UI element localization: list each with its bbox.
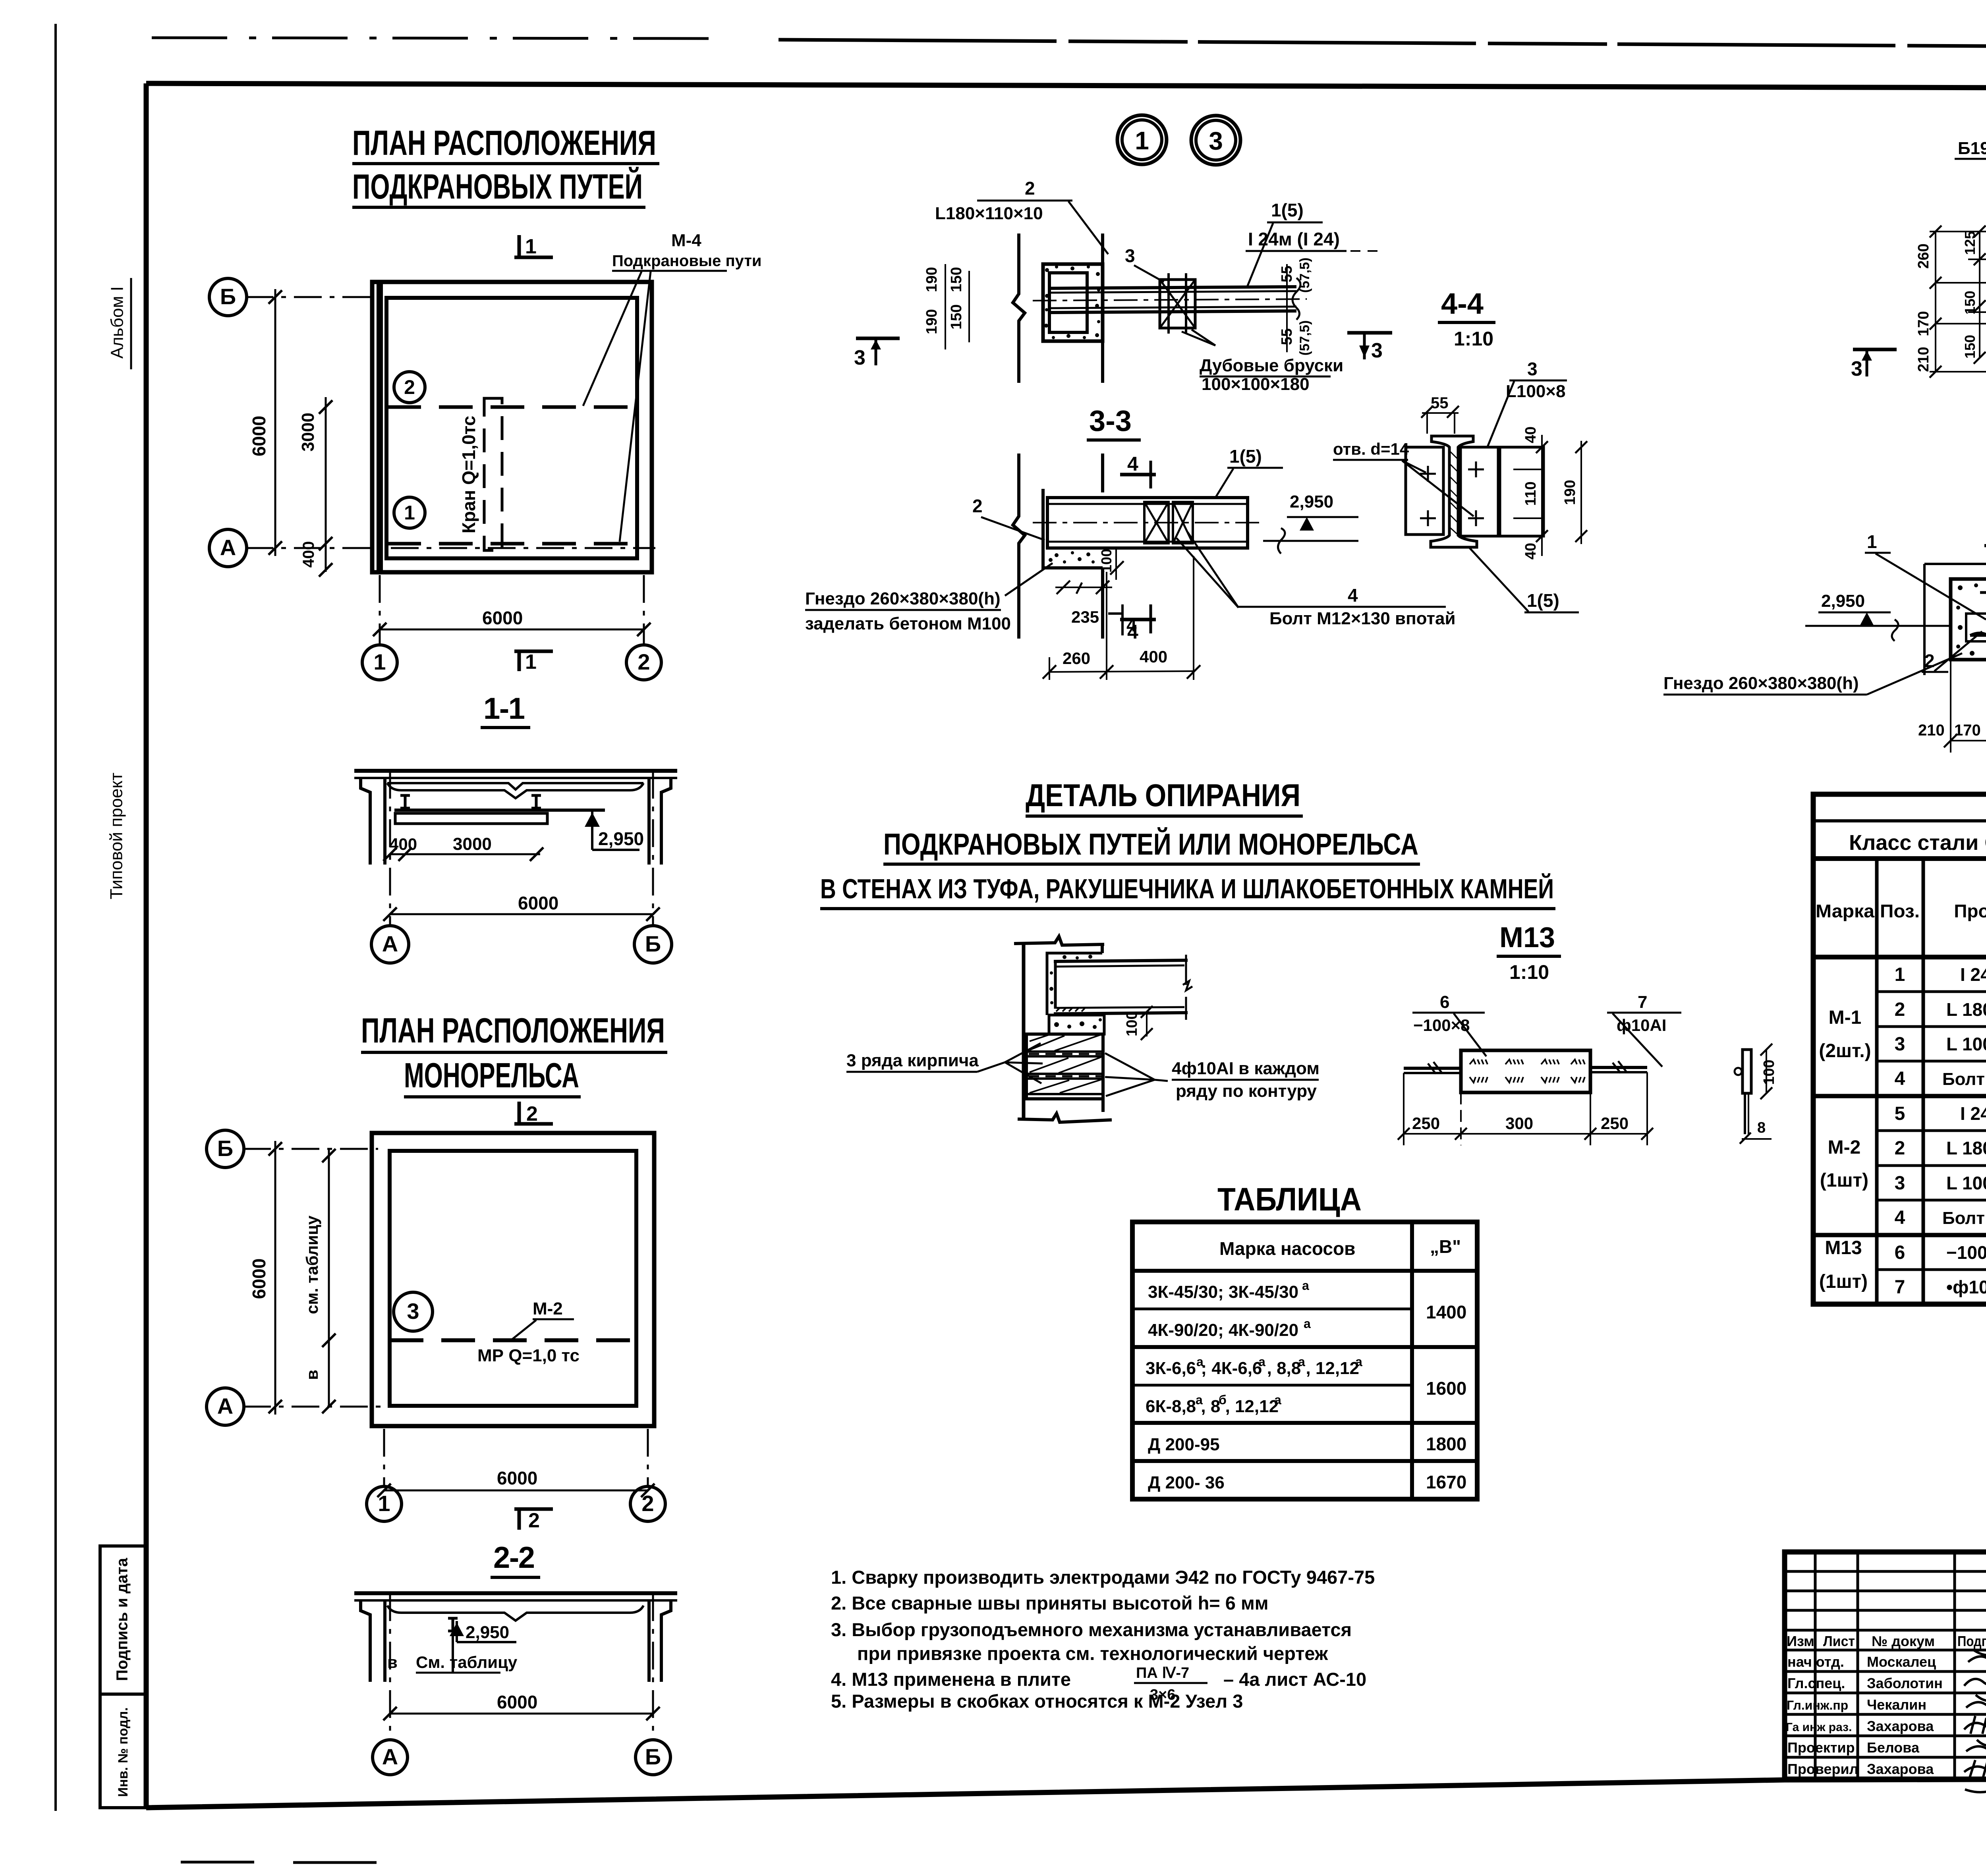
svg-text:400: 400 [389,835,417,853]
svg-text:А: А [217,1393,233,1419]
dims 250 300 250 [1404,1133,1647,1135]
title block [1785,1552,1986,1792]
section flag 3 left [856,337,900,340]
svg-text:(1шт): (1шт) [1819,1271,1868,1292]
svg-text:3К-45/30; 3К-45/30: 3К-45/30; 3К-45/30 [1148,1282,1298,1302]
grid circle A [209,529,247,567]
svg-text:Б19: Б19 [1958,139,1986,158]
wall right edge top stub [1101,944,1104,953]
svg-text:4: 4 [1348,585,1358,606]
wall below bricks [1101,1099,1105,1112]
svg-text:Проектир: Проектир [1787,1739,1855,1756]
svg-text:М-2: М-2 [533,1299,563,1318]
svg-text:6000: 6000 [497,1692,537,1712]
circles A B [373,1740,408,1775]
svg-text:В СТЕНАХ ИЗ ТУФА, РАКУШЕЧНИКА: В СТЕНАХ ИЗ ТУФА, РАКУШЕЧНИКА И ШЛАКОБЕТ… [820,873,1554,904]
svg-text:См. таблицу: См. таблицу [416,1653,518,1671]
svg-text:40: 40 [1522,427,1539,443]
svg-text:2,950: 2,950 [466,1623,509,1642]
detail opiraniya drawing [846,936,1319,1122]
svg-text:Захарова: Захарова [1867,1718,1934,1734]
dim 6000 bottom [384,1490,648,1492]
brick block [1026,1034,1103,1099]
section mark 1 bottom [514,650,553,653]
svg-text:М-2: М-2 [1828,1137,1861,1158]
svg-text:2. Все сварные швы приняты: 2. Все сварные швы приняты высотой h= 6 … [831,1592,1269,1614]
bolt block (oak bars) [1160,280,1195,328]
svg-text:Гл.инж.пр: Гл.инж.пр [1787,1698,1848,1712]
svg-text:1:10: 1:10 [1509,961,1549,983]
elevation 2950 [456,1621,458,1642]
svg-text:2: 2 [1025,178,1035,199]
bolt centers [1420,461,1484,526]
svg-text:55: 55 [1431,394,1449,412]
marka col [1819,1007,1871,1292]
beam side view [1049,287,1296,288]
section mark 2 bottom [514,1507,553,1511]
svg-text:1:10: 1:10 [1454,328,1493,350]
svg-text:Белова: Белова [1867,1739,1920,1756]
svg-text:отв. d=14: отв. d=14 [1333,440,1409,458]
svg-text:б: б [1219,1393,1227,1407]
flag 4 small [1121,604,1124,635]
profile col [1942,964,1986,1297]
plan 2 (monorail) [207,1102,665,1532]
svg-text:3000: 3000 [453,834,492,854]
dims 210 170 260 430 [1951,740,1986,741]
page top edge line [152,38,711,39]
svg-text:6000: 6000 [249,1258,269,1299]
elevation 2950 [591,810,593,850]
left dims [945,264,946,349]
svg-text:М13: М13 [1825,1237,1862,1258]
title: plan raspolozheniya podkranovykh putey [352,123,659,207]
svg-text:L 180×110×10: L 180×110×10 [1946,999,1986,1020]
svg-text:Москалец: Москалец [1867,1654,1936,1670]
svg-text:(57,5): (57,5) [1297,320,1312,356]
svg-text:Д 200- 36: Д 200- 36 [1148,1473,1225,1492]
svg-text:а: а [1274,1393,1281,1407]
svg-text:Захарова: Захарова [1867,1761,1934,1777]
svg-text:L100×8: L100×8 [1506,382,1565,401]
row lines [1877,992,1986,1270]
section 5-5 [1663,510,1986,790]
svg-text:150: 150 [1962,291,1978,315]
svg-text:Гл.спец.: Гл.спец. [1787,1675,1845,1691]
svg-text:1(5): 1(5) [1271,200,1304,220]
svg-text:а: а [1196,1393,1203,1407]
section flag 3 [1347,331,1392,335]
svg-text:110: 110 [1522,481,1539,506]
dims 400 3000 [390,853,540,855]
svg-text:Подпись и дата: Подпись и дата [114,1558,131,1681]
svg-text:250: 250 [1601,1114,1629,1133]
svg-text:55: 55 [1279,328,1295,345]
svg-text:Б: Б [645,1744,661,1769]
grid circles [207,1130,244,1168]
svg-text:150: 150 [948,304,965,329]
svg-text:L180×110×10: L180×110×10 [935,204,1043,223]
dim sm.tablitsu / v [328,1149,330,1407]
svg-text:100: 100 [1761,1060,1777,1085]
svg-text:2: 2 [528,1509,540,1532]
beam [1054,960,1188,961]
svg-text:а: а [1298,1355,1305,1369]
detail 3-3 upper (node section) [854,178,1378,440]
axes verticals [389,1593,391,1736]
right plate [1461,447,1498,536]
svg-text:2,950: 2,950 [598,828,644,849]
svg-text:ПЛАН РАСПОЛОЖЕНИЯ: ПЛАН РАСПОЛОЖЕНИЯ [352,123,656,162]
monorail beams [400,795,410,808]
100 dim [1146,1012,1148,1036]
left dims [1935,232,1936,372]
bar with plate [1404,1067,1462,1070]
section flag 4 top [1120,473,1156,477]
svg-text:3К-6,6 ; 4К-6,6 , 8,8 , 12,12: 3К-6,6 ; 4К-6,6 , 8,8 , 12,12 [1146,1359,1359,1378]
svg-text:300: 300 [1505,1114,1533,1133]
svg-text:2: 2 [972,496,983,516]
svg-text:L 100×8: L 100×8 [1946,1173,1986,1193]
walls [372,282,652,572]
svg-text:4: 4 [1127,453,1138,475]
svg-text:2: 2 [1895,1138,1905,1159]
outline box with breaks [1924,563,1986,565]
svg-text:Чекалин: Чекалин [1867,1697,1926,1713]
tablitsa [1132,1181,1477,1499]
svg-text:I 24м (I 24): I 24м (I 24) [1248,229,1340,249]
svg-text:190: 190 [923,267,940,292]
svg-text:2: 2 [638,649,650,674]
svg-text:Гнездо 260×380×380(h): Гнездо 260×380×380(h) [805,589,1001,608]
niche concrete [1043,264,1103,341]
node 1-3 header circles [1117,115,1240,165]
dim 235 [1055,587,1112,588]
svg-text:ПОДКРАНОВЫХ ПУТЕЙ: ПОДКРАНОВЫХ ПУТЕЙ [352,167,643,206]
dim 6000 bottom [380,629,644,631]
niche concrete in plan [1043,489,1103,568]
svg-text:Гнездо 260×380×380(h): Гнездо 260×380×380(h) [1663,674,1859,693]
svg-text:Болт М12×130: Болт М12×130 [1942,1069,1986,1089]
svg-text:150: 150 [948,267,965,292]
left plate [1406,447,1443,535]
svg-text:400: 400 [300,541,317,568]
svg-text:в: в [387,1653,398,1671]
svg-text:1-1: 1-1 [483,692,525,726]
svg-text:260: 260 [1063,649,1090,668]
svg-text:55: 55 [1279,266,1295,282]
crane rails dashed [387,407,637,544]
svg-text:2: 2 [404,376,415,398]
beam plan [1047,498,1248,548]
svg-text:4-4: 4-4 [1441,287,1484,320]
notes [831,1567,1375,1712]
detail opiraniya titles [820,778,1555,909]
rail axis circles [394,372,425,403]
signatures squiggles [1964,1650,1986,1792]
svg-text:7: 7 [1638,992,1647,1012]
svg-text:Инв. № подл.: Инв. № подл. [116,1707,131,1797]
svg-text:Профиль: Профиль [1954,901,1986,921]
svg-text:Б: Б [645,931,661,956]
svg-text:МОНОРЕЛЬСА: МОНОРЕЛЬСА [404,1056,579,1095]
circles A B [371,926,409,963]
wall verticals [1013,454,1025,639]
svg-text:Подкрановые пути: Подкрановые пути [612,252,762,270]
monorail hanger [448,1618,458,1631]
svg-text:3: 3 [1895,1034,1905,1055]
svg-text:(1шт): (1шт) [1820,1170,1868,1191]
svg-text:6: 6 [1440,992,1449,1012]
left column [361,778,370,865]
svg-text:(2шт.): (2шт.) [1819,1040,1871,1062]
svg-text:ДЕТАЛЬ ОПИРАНИЯ: ДЕТАЛЬ ОПИРАНИЯ [1026,778,1300,813]
svg-text:210: 210 [1918,722,1945,739]
svg-text:1: 1 [1135,126,1149,155]
section 2-2 [354,1541,677,1775]
M13 detail [1398,922,1777,1145]
svg-text:2: 2 [526,1102,538,1125]
dim 6000 [390,913,653,915]
svg-text:(57,5): (57,5) [1297,258,1312,293]
svg-text:ПА Ⅳ-7: ПА Ⅳ-7 [1136,1665,1189,1681]
right dims 55 (57,5) [1286,264,1288,352]
svg-text:I 24: I 24 [1960,1103,1986,1124]
svg-text:6000: 6000 [482,608,523,628]
svg-text:Га инж раз.: Га инж раз. [1786,1721,1852,1734]
svg-text:3: 3 [1125,245,1135,266]
svg-text:Подпись: Подпись [1957,1633,1986,1649]
svg-text:4: 4 [1895,1068,1905,1089]
svg-text:3: 3 [1371,339,1383,362]
svg-text:а: а [1196,1355,1204,1369]
svg-text:3: 3 [1209,127,1223,155]
svg-text:4К-90/20; 4К-90/20: 4К-90/20; 4К-90/20 [1148,1320,1298,1340]
left margin labels [100,278,145,1808]
left column [361,1600,370,1682]
svg-text:Поз.: Поз. [1880,901,1920,921]
svg-text:см. таблицу: см. таблицу [303,1215,321,1314]
section 4-4 [1333,287,1587,612]
svg-text:Б: Б [220,284,236,309]
monorail dashed line [390,1338,636,1342]
svg-text:ПЛАН РАСПОЛОЖЕНИЯ: ПЛАН РАСПОЛОЖЕНИЯ [361,1011,665,1050]
axis lines [243,1149,648,1485]
svg-text:•ф10АI: •ф10АI [1946,1277,1986,1297]
svg-text:Заболотин: Заболотин [1867,1675,1943,1691]
dim 3000/400 vertical [325,397,327,572]
svg-text:Лист: Лист [1823,1633,1855,1649]
svg-text:1: 1 [373,649,386,674]
axis lines [245,297,655,644]
I beam profile inside [1970,593,1986,637]
concrete under beam [1049,1015,1104,1034]
wall top edge with break [1014,936,1104,945]
svg-text:190: 190 [923,309,940,334]
svg-text:8: 8 [1757,1119,1766,1136]
svg-text:3: 3 [407,1299,419,1324]
flag 3 left [1853,348,1897,351]
svg-text:Марка: Марка [1816,901,1874,921]
svg-text:Альбом I: Альбом I [108,286,127,359]
svg-text:40: 40 [1522,543,1539,560]
svg-text:Проверил: Проверил [1787,1761,1858,1777]
svg-text:а: а [1302,1278,1309,1293]
svg-text:заделать бетоном М100: заделать бетоном М100 [805,614,1011,633]
roof slab [354,769,677,773]
svg-text:I 24м: I 24м [1960,964,1986,985]
svg-text:Изм: Изм [1787,1633,1814,1649]
svg-text:А: А [382,931,398,956]
svg-text:6: 6 [1895,1242,1905,1263]
welding marks [1470,1060,1585,1083]
svg-text:7: 7 [1895,1277,1905,1298]
svg-text:6К-8,8 , 8 , 12,12: 6К-8,8 , 8 , 12,12 [1146,1397,1279,1416]
svg-text:1600: 1600 [1426,1378,1466,1399]
dims right [1541,435,1543,556]
svg-text:3. Выбор грузоподъемного ме: 3. Выбор грузоподъемного механизма устан… [831,1619,1352,1640]
svg-text:2: 2 [1895,999,1905,1020]
svg-text:2-2: 2-2 [493,1541,535,1575]
svg-text:а: а [1304,1316,1311,1331]
svg-text:ПОДКРАНОВЫХ ПУТЕЙ ИЛИ МОНОРЕЛЬ: ПОДКРАНОВЫХ ПУТЕЙ ИЛИ МОНОРЕЛЬСА [883,827,1418,861]
circle 3 [394,1292,433,1331]
svg-text:3000: 3000 [298,413,318,452]
svg-text:4: 4 [1895,1207,1905,1228]
svg-text:6000: 6000 [249,416,269,456]
svg-text:А: А [382,1744,398,1769]
svg-text:ряду по контуру: ряду по контуру [1176,1081,1317,1101]
svg-text:260: 260 [1915,243,1932,268]
svg-text:L 180×110×10: L 180×110×10 [1946,1138,1986,1158]
svg-text:нач отд.: нач отд. [1787,1654,1844,1670]
svg-text:Болт М12×130: Болт М12×130 [1942,1208,1986,1228]
I beam section [1431,436,1477,547]
svg-text:−100×8: −100×8 [1946,1242,1986,1263]
svg-text:3: 3 [854,346,865,369]
svg-text:400: 400 [1140,647,1167,666]
crane bridge dashed rect [484,398,502,550]
svg-text:в: в [303,1370,321,1380]
right column [661,778,671,865]
svg-text:– 4а лист АС-10: – 4а лист АС-10 [1223,1669,1366,1690]
svg-text:при привязке проекта см.: при привязке проекта см. технологический… [857,1643,1328,1664]
svg-text:170: 170 [1954,722,1981,739]
axes verticals [389,771,391,926]
grid circle 1 bottom [362,645,397,680]
svg-text:210: 210 [1915,347,1932,372]
svg-text:250: 250 [1412,1114,1440,1133]
node 2 detail (top right) [1851,113,1986,557]
svg-text:4ф10АI в каждом: 4ф10АI в каждом [1172,1059,1319,1078]
end view far right [1743,1050,1751,1093]
section mark 1 top [514,256,553,259]
right column [661,1600,671,1682]
svg-text:1800: 1800 [1426,1434,1466,1454]
svg-text:6000: 6000 [497,1468,537,1488]
svg-text:ТАБЛИЦА: ТАБЛИЦА [1217,1181,1362,1218]
svg-text:190: 190 [1562,480,1578,505]
roof slab [354,1591,677,1595]
title: plan monorelsa [361,1011,667,1097]
svg-text:3: 3 [1527,359,1538,379]
svg-text:150: 150 [1962,335,1978,359]
svg-text:1. Сварку производить элект: 1. Сварку производить электродами Э42 по… [831,1567,1375,1588]
svg-text:3: 3 [1851,357,1862,380]
detail 3-3 lower (plan) [805,446,1456,680]
svg-text:1: 1 [525,235,537,258]
gnezdo concrete C-shape [1047,953,1102,1015]
section 1-1 [354,692,677,963]
100 dim [1115,548,1117,580]
svg-text:5: 5 [1895,1103,1905,1124]
svg-text:125: 125 [1962,231,1978,255]
dim 6000 vertical [274,289,276,556]
svg-text:235: 235 [1071,608,1099,626]
svg-text:3-3: 3-3 [1089,404,1132,437]
svg-text:Марка насосов: Марка насосов [1219,1238,1355,1259]
svg-text:№ докум: № докум [1872,1633,1935,1649]
page bottom edge dashes [181,1861,254,1864]
svg-text:1: 1 [525,650,537,674]
dim 6000 vertical [274,1141,276,1415]
svg-text:4: 4 [1126,615,1137,635]
svg-text:Кран Q=1,0тс: Кран Q=1,0тс [458,416,479,533]
svg-text:4. М13 применена в плите: 4. М13 применена в плите [831,1669,1071,1690]
svg-text:1670: 1670 [1426,1472,1466,1492]
svg-text:Б: Б [217,1136,233,1161]
concrete block [1951,579,1986,660]
svg-text:2,950: 2,950 [1290,492,1333,511]
svg-text:МР Q=1,0 тс: МР Q=1,0 тс [477,1346,580,1365]
svg-text:2,950: 2,950 [1821,591,1865,611]
grid circle 2 bottom [626,645,661,680]
signature table [1785,1552,1986,1779]
svg-text:3: 3 [1895,1173,1905,1194]
svg-text:L 100×8: L 100×8 [1946,1034,1986,1054]
svg-text:М-4: М-4 [671,231,701,250]
section mark 2 top [514,1122,553,1126]
svg-text:1: 1 [1895,964,1905,985]
svg-text:Класс стали С: Класс стали С [1849,831,1986,855]
svg-text:100: 100 [1124,1011,1140,1036]
svg-text:Типовой проект: Типовой проект [107,772,126,899]
svg-text:100: 100 [1098,549,1115,573]
svg-text:6000: 6000 [518,893,558,913]
svg-text:5. Размеры в скобках относ: 5. Размеры в скобках относятся к М-2 Узе… [831,1691,1243,1712]
svg-text:1(5): 1(5) [1229,446,1262,467]
svg-text:М13: М13 [1499,922,1555,953]
svg-text:а: а [1258,1355,1265,1369]
svg-text:170: 170 [1915,311,1932,336]
section flag 4 bottom [1120,618,1156,621]
wall left edge [1022,943,1026,1120]
specification table [1813,793,1986,1304]
svg-text:„В": „В" [1430,1236,1461,1257]
svg-text:1400: 1400 [1426,1302,1466,1322]
header cells [1875,859,1879,1304]
svg-text:А: А [220,535,236,560]
dim 6000 [390,1713,653,1715]
svg-text:1: 1 [1867,531,1877,552]
svg-text:а: а [1355,1355,1362,1369]
plan 1 (crane tracks) [209,231,762,680]
svg-text:1: 1 [404,502,415,524]
svg-text:3 ряда кирпича: 3 ряда кирпича [846,1051,979,1070]
grid circle B [209,278,247,316]
oak bars plan [1144,502,1169,543]
svg-text:Болт М12×130 впотай: Болт М12×130 впотай [1269,609,1456,628]
